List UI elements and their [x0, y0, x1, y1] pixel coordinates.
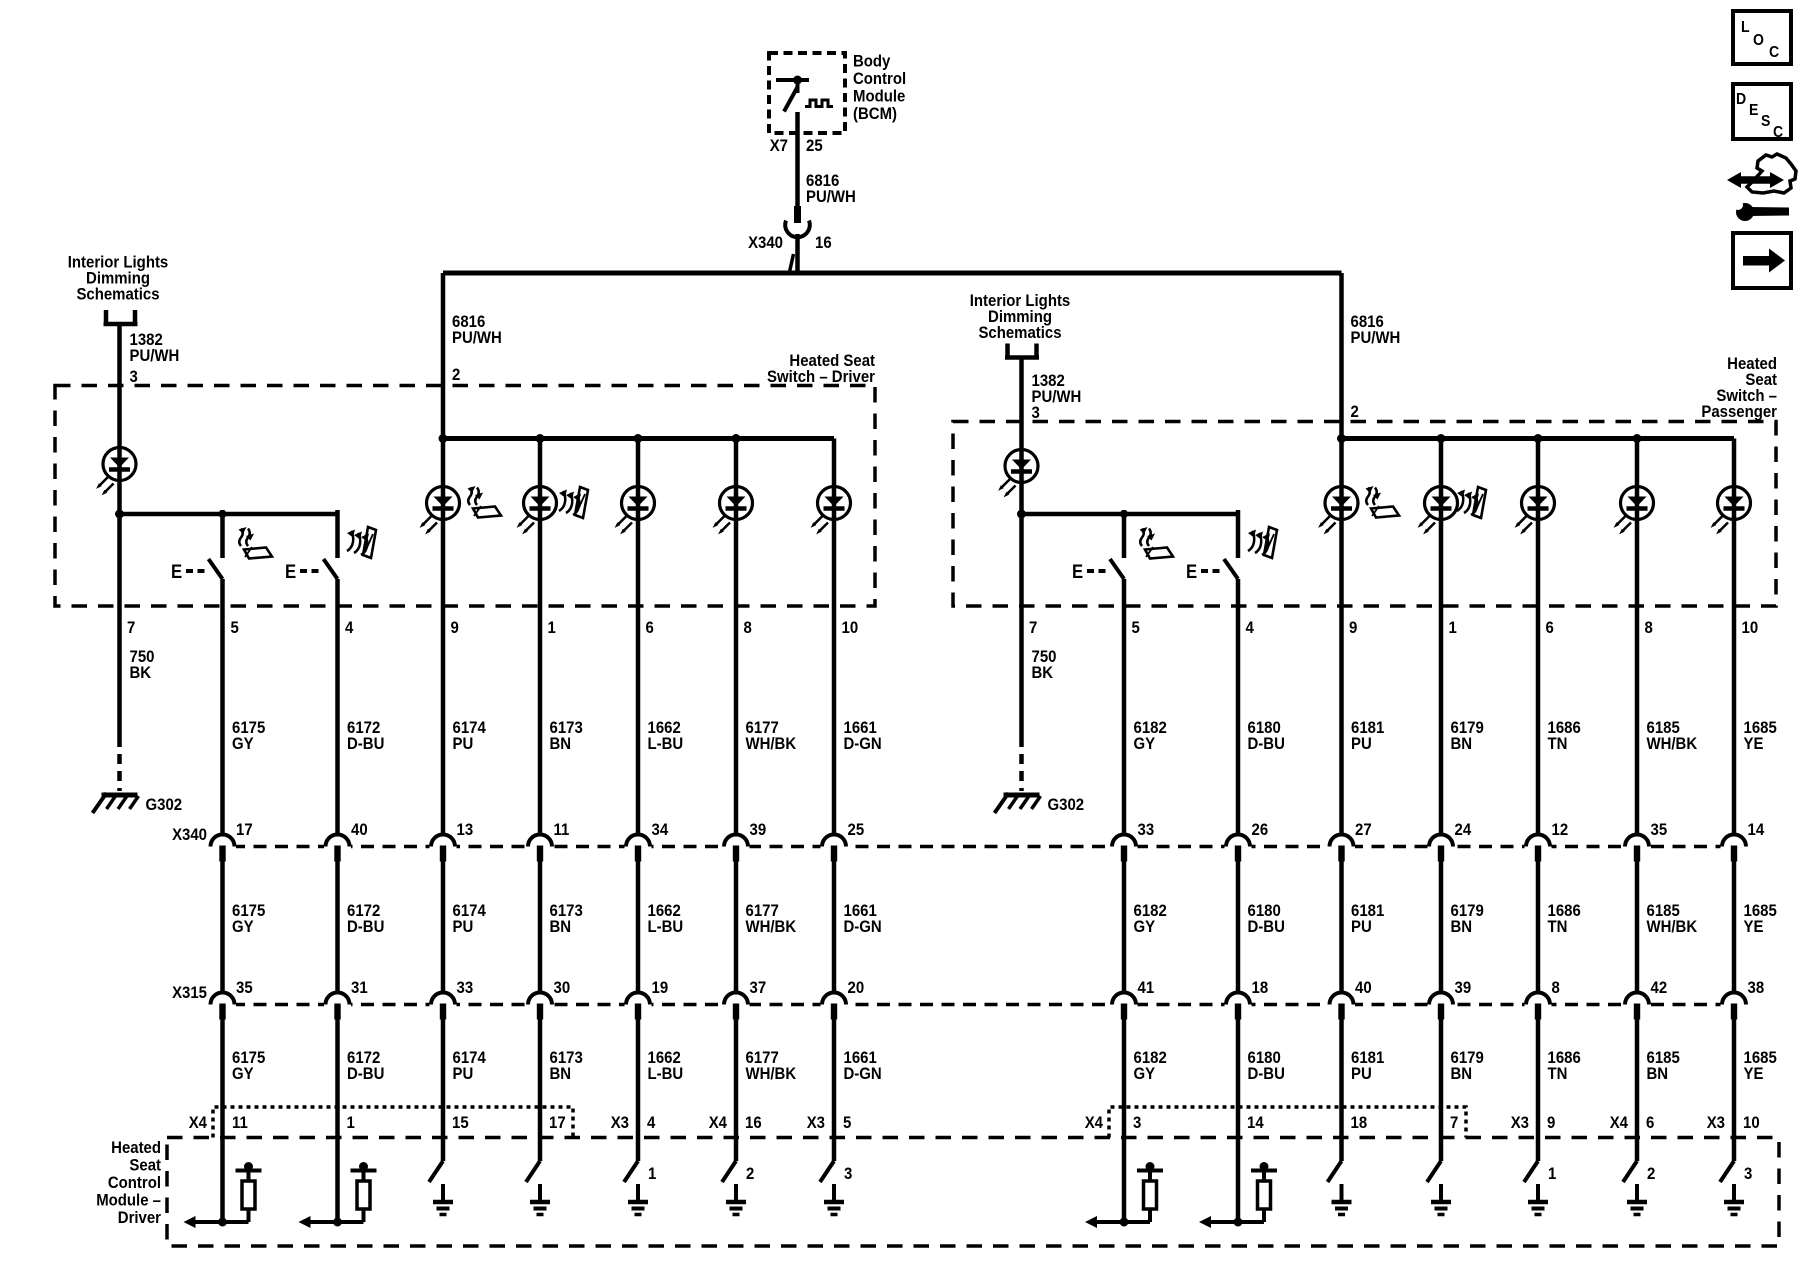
- svg-text:D-BU: D-BU: [1248, 918, 1285, 936]
- svg-text:PU: PU: [1351, 735, 1372, 753]
- svg-text:WH/BK: WH/BK: [1647, 735, 1698, 753]
- svg-text:25: 25: [848, 821, 865, 839]
- svg-text:34: 34: [652, 821, 669, 839]
- svg-text:YE: YE: [1744, 1065, 1764, 1083]
- svg-text:G302: G302: [146, 796, 183, 814]
- svg-text:5: 5: [1132, 619, 1140, 637]
- svg-text:8: 8: [744, 619, 752, 637]
- svg-text:Module –: Module –: [96, 1192, 161, 1210]
- svg-text:1: 1: [648, 1165, 656, 1183]
- svg-text:24: 24: [1455, 821, 1472, 839]
- svg-text:40: 40: [1355, 979, 1372, 997]
- svg-text:X315: X315: [172, 984, 207, 1002]
- svg-text:GY: GY: [232, 735, 254, 753]
- svg-text:BK: BK: [1032, 664, 1054, 682]
- svg-text:D-BU: D-BU: [347, 918, 384, 936]
- svg-text:35: 35: [236, 979, 253, 997]
- svg-text:5: 5: [843, 1114, 851, 1132]
- svg-text:PU/WH: PU/WH: [452, 329, 502, 347]
- svg-text:3: 3: [1744, 1165, 1752, 1183]
- svg-text:L-BU: L-BU: [648, 735, 684, 753]
- svg-text:1: 1: [1449, 619, 1457, 637]
- svg-text:X340: X340: [748, 234, 783, 252]
- svg-text:Switch – Driver: Switch – Driver: [767, 368, 875, 386]
- svg-text:9: 9: [1547, 1114, 1555, 1132]
- svg-text:42: 42: [1651, 979, 1668, 997]
- svg-text:14: 14: [1748, 821, 1765, 839]
- svg-text:GY: GY: [1134, 735, 1156, 753]
- svg-text:TN: TN: [1548, 1065, 1568, 1083]
- svg-text:Heated: Heated: [111, 1139, 161, 1157]
- svg-text:X3: X3: [1511, 1114, 1529, 1132]
- svg-text:8: 8: [1645, 619, 1653, 637]
- svg-text:D-BU: D-BU: [1248, 735, 1285, 753]
- svg-text:18: 18: [1252, 979, 1269, 997]
- svg-text:L: L: [1741, 18, 1750, 36]
- svg-text:BN: BN: [1451, 918, 1473, 936]
- svg-text:X4: X4: [189, 1114, 207, 1132]
- svg-text:5: 5: [231, 619, 239, 637]
- svg-text:D-GN: D-GN: [844, 1065, 882, 1083]
- svg-text:X3: X3: [1707, 1114, 1725, 1132]
- svg-text:30: 30: [554, 979, 571, 997]
- svg-text:18: 18: [1351, 1114, 1368, 1132]
- svg-text:X7: X7: [770, 137, 788, 155]
- svg-text:37: 37: [750, 979, 767, 997]
- svg-text:Schematics: Schematics: [978, 324, 1061, 342]
- svg-text:D-BU: D-BU: [347, 1065, 384, 1083]
- svg-text:Schematics: Schematics: [76, 286, 159, 304]
- svg-text:31: 31: [351, 979, 368, 997]
- svg-text:X4: X4: [1610, 1114, 1628, 1132]
- svg-text:40: 40: [351, 821, 368, 839]
- svg-text:3: 3: [844, 1165, 852, 1183]
- svg-text:27: 27: [1355, 821, 1372, 839]
- svg-text:6: 6: [1646, 1114, 1654, 1132]
- svg-text:1: 1: [1548, 1165, 1556, 1183]
- svg-text:PU: PU: [453, 1065, 474, 1083]
- svg-text:10: 10: [842, 619, 859, 637]
- svg-text:BN: BN: [550, 918, 572, 936]
- svg-text:33: 33: [457, 979, 474, 997]
- svg-text:TN: TN: [1548, 735, 1568, 753]
- svg-text:PU/WH: PU/WH: [806, 188, 856, 206]
- svg-text:PU: PU: [453, 735, 474, 753]
- svg-text:20: 20: [848, 979, 865, 997]
- svg-text:WH/BK: WH/BK: [1647, 918, 1698, 936]
- svg-text:4: 4: [345, 619, 353, 637]
- svg-text:15: 15: [452, 1114, 469, 1132]
- svg-text:X340: X340: [172, 826, 207, 844]
- svg-text:38: 38: [1748, 979, 1765, 997]
- svg-text:GY: GY: [232, 1065, 254, 1083]
- svg-text:16: 16: [815, 234, 832, 252]
- svg-text:39: 39: [750, 821, 767, 839]
- svg-text:7: 7: [127, 619, 135, 637]
- svg-text:WH/BK: WH/BK: [746, 918, 797, 936]
- svg-text:D-BU: D-BU: [347, 735, 384, 753]
- svg-text:C: C: [1773, 123, 1783, 141]
- svg-text:Seat: Seat: [129, 1157, 161, 1175]
- svg-text:9: 9: [451, 619, 459, 637]
- svg-text:26: 26: [1252, 821, 1269, 839]
- svg-text:E: E: [1072, 561, 1083, 582]
- svg-text:Body: Body: [853, 53, 890, 71]
- svg-text:19: 19: [652, 979, 669, 997]
- svg-text:12: 12: [1552, 821, 1569, 839]
- svg-text:GY: GY: [232, 918, 254, 936]
- svg-text:X4: X4: [709, 1114, 727, 1132]
- svg-text:PU/WH: PU/WH: [1351, 329, 1401, 347]
- svg-text:9: 9: [1349, 619, 1357, 637]
- svg-text:17: 17: [236, 821, 253, 839]
- svg-text:Driver: Driver: [118, 1209, 161, 1227]
- svg-text:33: 33: [1138, 821, 1155, 839]
- svg-text:G302: G302: [1048, 796, 1085, 814]
- svg-text:2: 2: [452, 366, 460, 384]
- svg-text:L-BU: L-BU: [648, 918, 684, 936]
- svg-text:25: 25: [806, 137, 823, 155]
- svg-text:TN: TN: [1548, 918, 1568, 936]
- svg-text:D-BU: D-BU: [1248, 1065, 1285, 1083]
- svg-text:X3: X3: [611, 1114, 629, 1132]
- svg-text:GY: GY: [1134, 918, 1156, 936]
- svg-text:PU: PU: [453, 918, 474, 936]
- svg-text:E: E: [171, 561, 182, 582]
- svg-text:D-GN: D-GN: [844, 918, 882, 936]
- svg-text:E: E: [1186, 561, 1197, 582]
- svg-text:(BCM): (BCM): [853, 105, 897, 123]
- svg-text:2: 2: [1647, 1165, 1655, 1183]
- svg-text:D-GN: D-GN: [844, 735, 882, 753]
- svg-text:35: 35: [1651, 821, 1668, 839]
- svg-text:Passenger: Passenger: [1701, 403, 1777, 421]
- svg-text:3: 3: [1133, 1114, 1141, 1132]
- svg-text:10: 10: [1743, 1114, 1760, 1132]
- svg-text:BN: BN: [1451, 735, 1473, 753]
- svg-text:39: 39: [1455, 979, 1472, 997]
- svg-text:2: 2: [746, 1165, 754, 1183]
- svg-text:WH/BK: WH/BK: [746, 735, 797, 753]
- svg-text:BN: BN: [1647, 1065, 1669, 1083]
- svg-text:Control: Control: [108, 1174, 161, 1192]
- svg-text:D: D: [1736, 90, 1746, 108]
- svg-text:16: 16: [745, 1114, 762, 1132]
- svg-text:PU: PU: [1351, 1065, 1372, 1083]
- svg-text:O: O: [1753, 31, 1764, 49]
- svg-text:BN: BN: [550, 1065, 572, 1083]
- svg-text:14: 14: [1247, 1114, 1264, 1132]
- svg-text:1: 1: [548, 619, 556, 637]
- svg-text:3: 3: [130, 368, 138, 386]
- svg-text:PU/WH: PU/WH: [130, 347, 180, 365]
- svg-text:E: E: [1749, 101, 1758, 119]
- svg-text:YE: YE: [1744, 735, 1764, 753]
- svg-text:2: 2: [1351, 403, 1359, 421]
- svg-text:11: 11: [554, 821, 570, 839]
- svg-text:S: S: [1761, 112, 1770, 130]
- svg-text:6: 6: [1546, 619, 1554, 637]
- svg-text:4: 4: [647, 1114, 655, 1132]
- svg-text:X4: X4: [1085, 1114, 1103, 1132]
- svg-text:Module: Module: [853, 88, 905, 106]
- svg-text:E: E: [285, 561, 296, 582]
- svg-text:4: 4: [1246, 619, 1254, 637]
- svg-text:7: 7: [1029, 619, 1037, 637]
- svg-text:BK: BK: [130, 664, 152, 682]
- svg-text:1: 1: [347, 1114, 355, 1132]
- svg-text:L-BU: L-BU: [648, 1065, 684, 1083]
- svg-text:10: 10: [1742, 619, 1759, 637]
- svg-text:8: 8: [1552, 979, 1560, 997]
- svg-text:41: 41: [1138, 979, 1155, 997]
- svg-text:17: 17: [549, 1114, 566, 1132]
- svg-text:BN: BN: [1451, 1065, 1473, 1083]
- svg-text:6: 6: [646, 619, 654, 637]
- svg-text:7: 7: [1450, 1114, 1458, 1132]
- svg-text:YE: YE: [1744, 918, 1764, 936]
- svg-text:3: 3: [1032, 404, 1040, 422]
- svg-text:BN: BN: [550, 735, 572, 753]
- svg-text:13: 13: [457, 821, 474, 839]
- svg-text:C: C: [1769, 43, 1779, 61]
- svg-text:PU: PU: [1351, 918, 1372, 936]
- svg-text:Control: Control: [853, 70, 906, 88]
- svg-text:11: 11: [232, 1114, 248, 1132]
- svg-text:WH/BK: WH/BK: [746, 1065, 797, 1083]
- svg-text:X3: X3: [807, 1114, 825, 1132]
- svg-text:GY: GY: [1134, 1065, 1156, 1083]
